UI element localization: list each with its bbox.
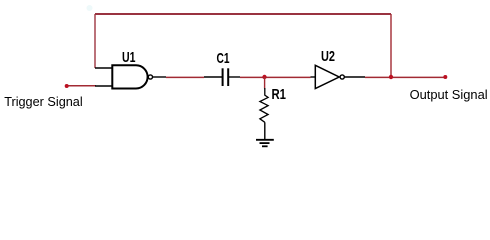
wire trigger input red: [67, 85, 96, 87]
wire R1 to ground: [264, 122, 266, 140]
op-amp U2 inverter body: [315, 65, 344, 88]
svg-text:Output Signal: Output Signal: [410, 87, 488, 102]
wire C1 right pin: [229, 76, 240, 78]
wire U1 bottom input pin: [95, 85, 112, 87]
svg-text:R1: R1: [272, 86, 287, 103]
svg-text:C1: C1: [217, 50, 230, 67]
svg-text:Trigger Signal: Trigger Signal: [4, 94, 83, 109]
ground: [256, 140, 274, 147]
wire feedback left vertical: [94, 14, 96, 68]
wire U1 output pin: [153, 76, 166, 78]
capacitor C1: [223, 68, 229, 86]
wire U1 to C1 red: [166, 76, 204, 78]
op-amp U1 nand gate body: [112, 65, 152, 88]
svg-text:U2: U2: [321, 48, 335, 65]
wire C1 to U2 red: [240, 76, 311, 78]
svg-text:U1: U1: [122, 49, 136, 66]
wire C1 left pin: [204, 76, 222, 78]
wire R1 top red stub: [264, 77, 266, 89]
artifact smudge top-left: [87, 5, 93, 11]
node junction feedback: [389, 75, 393, 79]
node trigger endpoint: [65, 84, 69, 88]
wire U2 output pin: [344, 76, 365, 78]
wire feedback right vertical: [390, 14, 392, 77]
wire feedback top horizontal: [95, 13, 391, 15]
wire U2 to output red: [365, 76, 445, 78]
wire U2 input pin: [311, 76, 316, 78]
node output endpoint: [443, 75, 447, 79]
wire U1 top input pin: [95, 67, 112, 69]
resistor R1: [260, 88, 268, 122]
node junction R1: [262, 75, 266, 79]
